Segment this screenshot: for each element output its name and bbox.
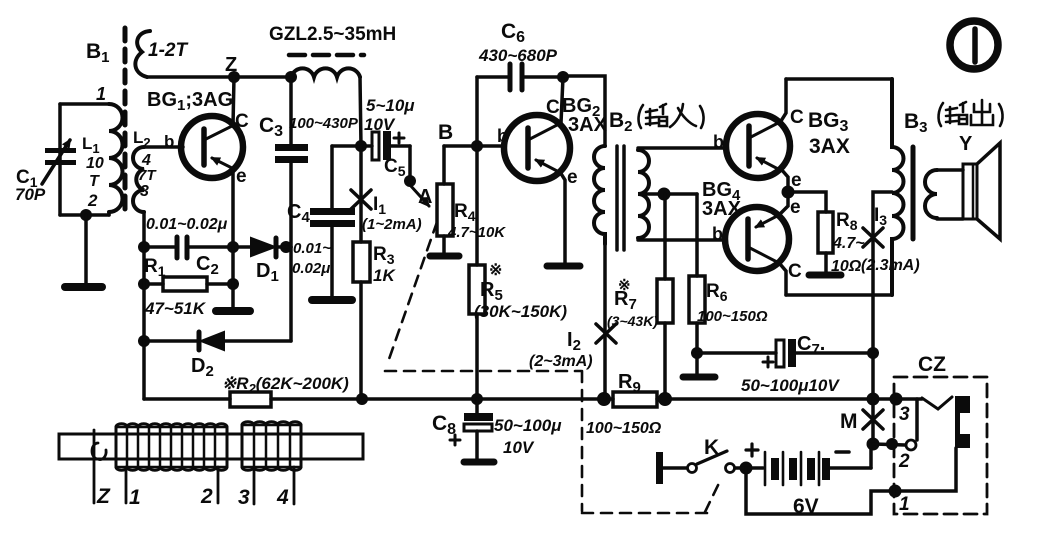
battery positive rail [746, 448, 956, 514]
wire L2 to BG1 base [144, 145, 183, 149]
node Z [228, 71, 240, 83]
label (shu chu) chinese [939, 100, 1003, 126]
rod coil 2 (small) [242, 422, 301, 470]
tank bottom wire [60, 213, 109, 217]
svg-text:4.7~: 4.7~ [832, 235, 865, 252]
wire base column down [142, 247, 146, 341]
wire Z to GZL [234, 75, 291, 79]
svg-text:1K: 1K [373, 266, 396, 285]
choke GZL winding [291, 68, 360, 77]
wire BG2 collector [561, 77, 563, 123]
test point I1 [351, 190, 371, 209]
coupling winding 1-2T [135, 31, 150, 77]
svg-text:(2~3mA): (2~3mA) [529, 353, 593, 370]
wire D1 node down to D2 row [289, 247, 293, 341]
output rail top [786, 77, 892, 81]
svg-text:10: 10 [86, 155, 104, 172]
node D2 left [138, 335, 150, 347]
svg-text:B: B [438, 121, 453, 144]
node C7 right [867, 347, 879, 359]
battery 6V [735, 444, 871, 485]
wire emitters to R8 [788, 192, 826, 212]
svg-text:3AX: 3AX [702, 198, 742, 220]
svg-text:(1~2mA): (1~2mA) [362, 216, 422, 233]
transformer B3 core [911, 147, 916, 239]
svg-text:50~100μ10V: 50~100μ10V [741, 376, 840, 395]
value 5~10u 10V [364, 96, 415, 134]
choke GZL dashed core [289, 53, 364, 58]
svg-text:2: 2 [898, 451, 910, 472]
main bus right segment [657, 397, 922, 401]
svg-text:b: b [497, 126, 508, 146]
svg-text:Y: Y [959, 133, 973, 155]
node center tap [658, 188, 671, 201]
resistor R3 [353, 146, 370, 399]
node battery negative [867, 438, 880, 451]
main bus left segment [144, 397, 230, 401]
svg-text:1: 1 [899, 494, 910, 515]
wire BG4 emitter [780, 192, 788, 214]
node dots R1 row [138, 278, 150, 290]
ground under R1 [216, 307, 250, 315]
svg-text:3: 3 [899, 404, 910, 425]
svg-text:0.01~: 0.01~ [293, 240, 331, 257]
inductor L1 [109, 104, 123, 212]
transformer B2 core [617, 146, 624, 250]
node contact1 rail [889, 485, 902, 498]
ground under C4 [312, 296, 352, 304]
svg-text:10V: 10V [364, 115, 396, 134]
svg-text:47~51K: 47~51K [144, 299, 207, 318]
capacitor C6 [477, 64, 563, 146]
svg-text:0.02μ: 0.02μ [292, 260, 330, 277]
diode D1 [251, 238, 291, 257]
svg-text:K: K [704, 436, 719, 459]
ground under R4 [430, 253, 459, 260]
wire BG3 collector [781, 79, 786, 121]
svg-text:C: C [546, 97, 560, 118]
wire B2 center tap [642, 192, 697, 196]
ground under C8 [464, 459, 494, 466]
transistor BG3 [726, 114, 790, 178]
wire BG3 emitter [781, 169, 788, 192]
speaker Y [937, 143, 1000, 239]
svg-text:3: 3 [238, 486, 250, 509]
svg-text:7T: 7T [138, 167, 157, 184]
svg-text:GZL2.5~35mH: GZL2.5~35mH [269, 24, 396, 45]
wire B2 primary bottom / I2 column [603, 244, 607, 399]
wire 1-2T to Z [147, 75, 234, 79]
svg-text:C: C [790, 107, 804, 128]
rod tap 2 [217, 467, 220, 503]
ground under BG2 emitter [547, 263, 580, 270]
node C6 right [557, 71, 569, 83]
svg-text:b: b [713, 132, 724, 152]
svg-text:430~680P: 430~680P [478, 46, 558, 65]
value 0.01~0.02u (C4) [292, 240, 331, 277]
rod tap 3 [253, 467, 256, 504]
electrolytic C5 [361, 131, 410, 160]
ferrite rod antenna [59, 434, 363, 459]
svg-text:C: C [788, 261, 802, 282]
transformer B3 primary [892, 79, 904, 295]
capacitor C3 [275, 77, 308, 247]
test point I3 [863, 228, 883, 247]
node battery plus [740, 462, 753, 475]
svg-text:b: b [712, 224, 723, 244]
capacitor C2 [177, 237, 187, 258]
node C4/C5 [355, 140, 367, 152]
plus C5 [394, 133, 404, 143]
minus battery [836, 450, 849, 454]
wire B3 center tap [873, 192, 892, 399]
svg-text:2: 2 [87, 191, 98, 210]
svg-text:2: 2 [200, 485, 213, 508]
bus node dots [356, 393, 368, 405]
ground under R6 [695, 353, 699, 374]
transistor BG1 [181, 116, 243, 178]
ground under tank [84, 215, 88, 284]
rod tap 4 [293, 467, 296, 504]
rod coil 1 (large) [116, 424, 227, 470]
svg-text:BG1;3AG: BG1;3AG [147, 89, 233, 114]
wire BG2 emitter [560, 172, 565, 263]
transformer B2 secondary winding [638, 150, 649, 238]
plus battery [746, 444, 758, 456]
transistor BG2 [504, 115, 570, 181]
wire B2 secondary bottom to BG4 base [638, 238, 726, 242]
figure number 1 in circle [950, 21, 998, 69]
svg-text:(3~43K): (3~43K) [607, 313, 658, 329]
resistor R7 [657, 194, 673, 399]
wire BG4 collector [780, 264, 786, 295]
diode D2 [144, 332, 291, 350]
wire C5 to node A [408, 146, 412, 181]
wire L2 bottom to C2 row [142, 212, 146, 247]
output rail bottom [786, 293, 892, 297]
label L1 10T [82, 134, 104, 210]
main bus middle segment [271, 397, 613, 401]
svg-text:5~10μ: 5~10μ [366, 96, 415, 115]
capacitor C4 [310, 146, 361, 297]
svg-text:3AX: 3AX [809, 135, 850, 158]
svg-text:Z: Z [96, 485, 111, 508]
svg-text:e: e [567, 167, 578, 188]
svg-text:10V: 10V [503, 438, 535, 457]
node B [444, 144, 503, 148]
svg-text:1-2T: 1-2T [148, 40, 188, 61]
jack plug [955, 396, 970, 448]
node dots C2 row [138, 241, 150, 253]
wire B2 secondary top to BG3 base [638, 146, 727, 150]
resistor R1 [144, 277, 233, 291]
svg-text:4: 4 [276, 486, 289, 509]
node C3 top [285, 71, 297, 83]
resistor R2 [230, 392, 271, 407]
svg-text:50~100μ: 50~100μ [494, 416, 562, 435]
test point M [871, 399, 875, 444]
node emitters [782, 186, 795, 199]
transformer B1 label [86, 40, 110, 66]
svg-text:1: 1 [129, 486, 141, 509]
svg-text:100~150Ω: 100~150Ω [697, 308, 768, 325]
svg-text:100~150Ω: 100~150Ω [586, 420, 662, 437]
wire emitter node to ground [231, 247, 235, 308]
test point I2 [596, 324, 616, 343]
rod tap 1 [125, 467, 128, 503]
inductor L2 [133, 147, 144, 212]
svg-text:※R2(62K~200K): ※R2(62K~200K) [222, 374, 349, 396]
transformer B3 secondary [925, 170, 937, 218]
jack spring contact 3 [922, 397, 952, 409]
svg-text:(2.3mA): (2.3mA) [861, 257, 920, 274]
rod tap labels [96, 485, 289, 509]
potentiometer R4 [437, 146, 453, 253]
tank top wire [60, 102, 109, 106]
node tank ground [80, 209, 92, 221]
svg-text:C7.: C7. [797, 333, 825, 358]
svg-text:T: T [89, 173, 100, 190]
svg-text:3AX: 3AX [568, 114, 608, 136]
svg-text:3: 3 [140, 183, 149, 200]
electrolytic C7 [697, 339, 873, 367]
svg-text:M: M [840, 410, 858, 433]
transistor BG4 [725, 207, 789, 271]
jack CZ dashed box [894, 377, 987, 514]
transformer B1 dashed core [123, 28, 128, 214]
wire C2 row [144, 245, 177, 249]
switch K anchor [656, 452, 663, 484]
rod tap Z [93, 430, 96, 503]
svg-text:※: ※ [489, 262, 502, 279]
node R6 bottom [691, 347, 703, 359]
mechanical link dashed (R4 to K) [385, 222, 721, 513]
label (shu ru) chinese [639, 104, 704, 128]
resistor R9 [613, 392, 657, 407]
svg-text:1: 1 [96, 84, 106, 104]
svg-text:100~430P: 100~430P [289, 115, 359, 132]
transformer B2 primary winding [594, 146, 605, 244]
node A [404, 175, 416, 187]
labels L2 b 4 7T 3 [133, 128, 174, 200]
wire BG1 collector to Z [233, 77, 234, 126]
wiper arrow A to R4 [410, 185, 429, 206]
wire GZL right leg [360, 77, 361, 146]
resistor R6 [689, 194, 705, 353]
wire BG1 emitter down [231, 168, 235, 247]
resistor R5 [469, 146, 485, 399]
svg-text:CZ: CZ [918, 353, 946, 376]
svg-text:C: C [235, 111, 249, 132]
resistor R8 [818, 212, 833, 272]
switch K [663, 451, 735, 473]
svg-text:Z: Z [225, 54, 237, 76]
wire base column to bus [142, 341, 146, 399]
svg-text:(30K~150K): (30K~150K) [474, 302, 567, 321]
capacitor C8 [464, 399, 493, 459]
variable capacitor C1 [42, 104, 76, 215]
svg-text:e: e [790, 197, 801, 218]
svg-text:0.01~0.02μ: 0.01~0.02μ [146, 216, 228, 233]
jack contact 2 [873, 399, 917, 450]
ground under R8 [809, 272, 841, 279]
svg-text:e: e [236, 166, 247, 187]
svg-text:70P: 70P [15, 185, 46, 204]
wire C6 node to B2 primary top [563, 76, 605, 146]
